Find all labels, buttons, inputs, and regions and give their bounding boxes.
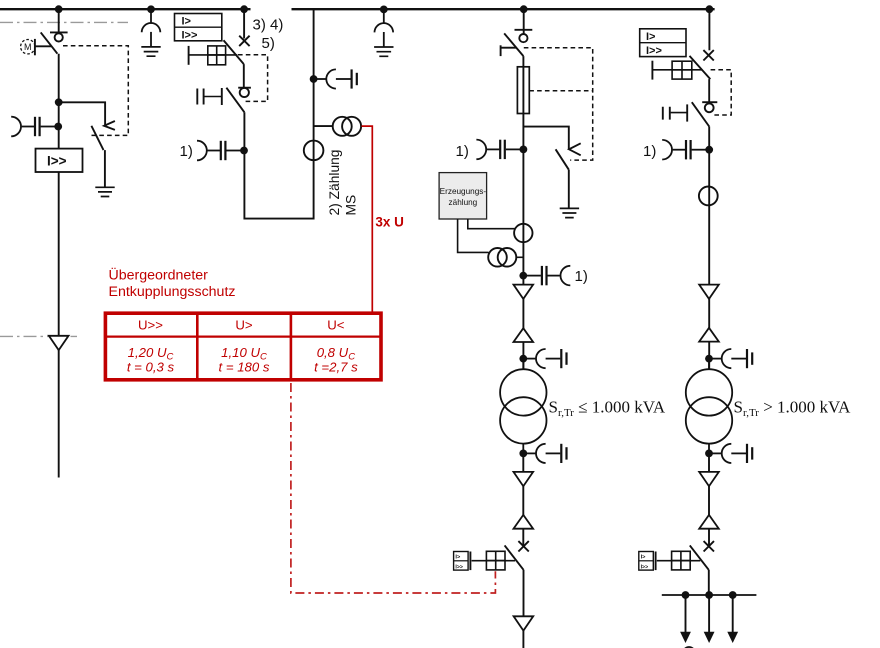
svg-text:2) Zählung: 2) Zählung xyxy=(327,150,342,216)
LV distribution bar xyxy=(662,594,757,596)
cable plug T2 primary xyxy=(712,349,752,368)
transformer T2 xyxy=(686,355,732,458)
svg-text:I>: I> xyxy=(182,16,191,28)
transducer box D xyxy=(672,61,692,79)
node C metering tap xyxy=(520,146,528,154)
LV feeder arrow 2 xyxy=(704,595,715,643)
energy meter circle MS xyxy=(304,141,324,161)
cable end with earth E2 xyxy=(374,5,393,56)
node A branch xyxy=(55,98,63,106)
svg-text:U>: U> xyxy=(235,317,253,332)
node LV 1 xyxy=(682,591,690,599)
wire feeder A drop xyxy=(58,9,60,33)
plug connector pair D lower xyxy=(699,472,719,529)
relay box I>> A xyxy=(36,149,83,172)
motor drive M circle xyxy=(21,40,35,54)
drive link wire C xyxy=(501,47,517,49)
node bus C xyxy=(520,5,528,13)
current transformer C2 xyxy=(526,266,570,286)
trip command dash-dot wire red xyxy=(291,383,496,593)
trip link wire B xyxy=(189,54,238,56)
transformer T1 xyxy=(500,355,546,458)
earth contact wire D xyxy=(671,112,688,114)
load-break switch C pivot circle xyxy=(519,34,527,42)
wire meter stub 1 xyxy=(468,219,515,229)
node bus B xyxy=(240,5,248,13)
earth contact wire B xyxy=(205,96,222,98)
outgoing plug arrow C xyxy=(514,616,534,630)
energy meter circle D xyxy=(699,187,718,206)
busbar left segment xyxy=(0,8,251,10)
transducer box B xyxy=(208,46,226,65)
wire meter stub 2 xyxy=(458,219,489,252)
svg-text:t =2,7 s: t =2,7 s xyxy=(314,360,358,375)
node C plug tap xyxy=(519,272,527,280)
energy meter circle C xyxy=(514,224,532,242)
svg-text:zählung: zählung xyxy=(449,198,478,207)
current transformer A xyxy=(11,117,55,137)
load-break switch Q1 pivot circle xyxy=(55,33,63,41)
switch D2 tick xyxy=(702,101,717,103)
LV breaker assembly D xyxy=(639,541,714,570)
busbar right segment xyxy=(292,8,715,10)
cable end with earth E1 xyxy=(141,5,160,56)
load-break switch Q1 blade xyxy=(41,32,58,53)
svg-text:1): 1) xyxy=(575,268,588,285)
wire feeder B drop xyxy=(243,9,245,38)
wire C outgoing xyxy=(523,570,525,616)
interlock dashed boundary B xyxy=(238,55,268,102)
earthing switch C blade xyxy=(556,149,569,169)
circuit breaker B blade xyxy=(224,40,244,64)
node A metering tap xyxy=(54,123,62,131)
trip link wire D xyxy=(652,69,702,71)
plug connector pair C upper xyxy=(514,285,534,342)
wire D between switches xyxy=(708,79,710,104)
disconnect point X B xyxy=(239,36,249,46)
table cell 0,8 Uc / t =2,7 s xyxy=(314,345,358,375)
switch D2 blade xyxy=(692,102,709,126)
wire 3x U voltage signal red xyxy=(362,126,373,313)
table cell 1,10 Uc / t = 180 s xyxy=(219,345,270,375)
wire B between switches xyxy=(243,64,245,88)
wire B lower vertical xyxy=(244,9,313,218)
wire D outgoing xyxy=(708,570,710,595)
voltage transformer C double circle xyxy=(488,248,523,267)
circuit breaker D blade xyxy=(690,56,711,79)
ground A xyxy=(95,187,114,196)
cable plug T2 secondary xyxy=(712,444,752,463)
svg-text:I>>: I>> xyxy=(47,154,67,169)
earth contact T-bar D xyxy=(686,104,688,121)
plug connector arrow A xyxy=(49,336,69,350)
current transformer B xyxy=(197,141,241,161)
earthing switch A contact arrow xyxy=(104,121,115,130)
svg-text:t = 0,3 s: t = 0,3 s xyxy=(127,360,175,375)
wire C lower vertical xyxy=(522,453,524,545)
earthing switch C contact arrow xyxy=(569,143,581,155)
motor drive link bar xyxy=(34,39,36,55)
cable plug connector MS xyxy=(317,69,357,88)
plug connector pair C lower xyxy=(514,472,534,529)
wire to ground A xyxy=(104,150,106,187)
svg-text:3) 4): 3) 4) xyxy=(253,17,284,34)
node B metering tap xyxy=(240,147,248,155)
earthing switch A blade xyxy=(91,126,103,150)
trip link bar D xyxy=(651,61,653,80)
boundary dash-dot line feeder A xyxy=(0,335,77,337)
svg-text:I>: I> xyxy=(646,31,655,43)
table cell 1,20 Uc / t = 0,3 s xyxy=(127,345,175,375)
svg-text:U<: U< xyxy=(327,317,345,332)
switch D2 pivot circle xyxy=(705,103,714,112)
wire C upper vertical xyxy=(522,56,524,369)
svg-text:t = 180 s: t = 180 s xyxy=(219,360,270,375)
svg-text:1): 1) xyxy=(456,143,469,160)
switch B2 pivot circle xyxy=(240,88,249,97)
switch B2 tick xyxy=(238,87,251,89)
voltage transformer MS double circle xyxy=(333,117,361,136)
relay box I> I>> B xyxy=(175,14,222,42)
svg-text:5): 5) xyxy=(262,35,275,52)
interlock dashed boundary C xyxy=(524,48,593,160)
wire feeder D drop xyxy=(708,9,710,50)
disconnect point X D xyxy=(703,50,713,60)
wire to ground C xyxy=(568,170,570,208)
node LV 3 xyxy=(729,591,737,599)
fuse F1 xyxy=(517,67,529,114)
interlock dashed boundary D xyxy=(711,70,732,115)
ground C xyxy=(560,208,579,217)
svg-text:I>>: I>> xyxy=(646,45,662,57)
svg-text:3x U: 3x U xyxy=(375,215,404,230)
earth contact bars D xyxy=(663,107,670,120)
wire earthing branch C xyxy=(523,127,568,149)
svg-text:MS: MS xyxy=(344,195,359,216)
fuse link line xyxy=(522,67,524,114)
generator circle clipped at edge xyxy=(683,647,695,648)
cable plug T1 primary xyxy=(526,349,566,368)
wire D main vertical xyxy=(708,127,710,370)
wire D lower vertical xyxy=(708,453,710,545)
LV breaker assembly C xyxy=(454,541,529,570)
load-break switch Q1 tick xyxy=(50,31,68,33)
plug connector pair D upper xyxy=(699,285,719,342)
earth contact T-bar B xyxy=(221,88,223,105)
LV feeder arrow 1 xyxy=(680,595,691,643)
svg-text:I>>: I>> xyxy=(182,30,198,42)
drive link bar C xyxy=(500,45,502,56)
svg-text:M: M xyxy=(24,42,32,52)
wire to voltage transformer MS xyxy=(314,125,333,127)
LV feeder arrow 3 xyxy=(727,595,738,643)
wire earthing branch A xyxy=(59,102,105,125)
cable plug T1 secondary xyxy=(526,444,566,463)
relay box I> I>> D xyxy=(640,29,686,57)
protection settings table frame xyxy=(105,313,381,380)
interlock dashed boundary A xyxy=(63,46,128,136)
earth contact bars B xyxy=(197,89,203,105)
svg-text:U>>: U>> xyxy=(138,317,163,332)
wire feeder A main vertical xyxy=(58,54,60,478)
node LV 2 xyxy=(705,591,713,599)
load-break switch C tick xyxy=(515,29,533,31)
wire C to edge xyxy=(522,631,524,648)
current transformer C xyxy=(476,140,520,160)
svg-text:Entkupplungsschutz: Entkupplungsschutz xyxy=(109,284,236,300)
svg-text:Erzeugungs-: Erzeugungs- xyxy=(440,187,487,196)
trip link bar B xyxy=(188,46,190,65)
node MS tap xyxy=(310,75,318,83)
switch B2 blade xyxy=(226,88,244,113)
node bus D xyxy=(706,5,714,13)
generation meter box Erzeugungszählung xyxy=(439,173,487,219)
label Übergeordneter Entkupplungsschutz xyxy=(109,265,236,300)
boundary dash-dot line top xyxy=(0,21,128,23)
motor drive link wire xyxy=(35,45,52,47)
svg-text:1): 1) xyxy=(643,143,656,160)
current transformer D xyxy=(662,140,706,160)
node bus A xyxy=(55,5,63,13)
wire feeder C drop xyxy=(523,9,525,34)
svg-text:1): 1) xyxy=(180,143,193,160)
svg-text:Übergeordneter: Übergeordneter xyxy=(109,265,209,283)
load-break switch C blade xyxy=(504,33,523,56)
node D metering tap xyxy=(705,146,713,154)
